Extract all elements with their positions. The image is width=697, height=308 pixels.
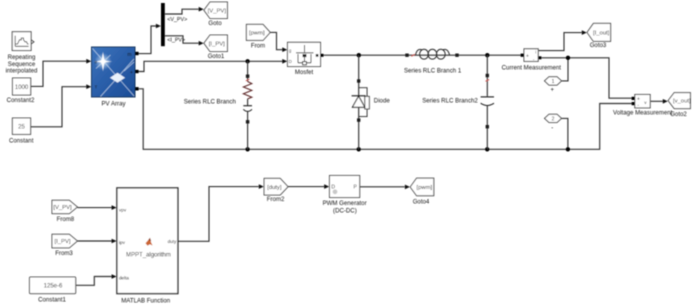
svg-text:Constant2: Constant2	[7, 97, 35, 104]
mosfet output port connector	[321, 54, 324, 57]
diode branch	[352, 55, 370, 149]
junction bottom bus at RLC branch	[245, 147, 249, 151]
svg-text:Series RLC Branch: Series RLC Branch	[184, 98, 236, 105]
svg-text:125e-6: 125e-6	[44, 284, 63, 290]
svg-text:From3: From3	[55, 250, 73, 257]
mosfet block	[288, 42, 324, 66]
terminal square top	[486, 74, 489, 77]
constant1 block 125e-6	[30, 277, 76, 294]
arrow into Goto2 v_out	[663, 99, 668, 104]
svg-text:PWM Generator: PWM Generator	[323, 200, 367, 207]
wire Mosfet output to Current Measurement (top bus)	[322, 54, 521, 56]
svg-text:[pwm]: [pwm]	[249, 31, 265, 37]
svg-text:[I_out]: [I_out]	[593, 31, 610, 37]
svg-text:interpolated: interpolated	[6, 68, 38, 75]
capacitor plates	[243, 105, 252, 107]
wire Voltage Measurement output to Goto2	[650, 100, 663, 102]
connection port 2	[545, 114, 562, 122]
svg-text:1000: 1000	[15, 85, 29, 91]
svg-text:[duty]: [duty]	[267, 185, 282, 191]
series RLC branch 2 capacitor vertical	[481, 55, 494, 149]
connection port 1	[545, 77, 562, 85]
wire Current Measurement out to Voltage Measurement plus	[541, 58, 631, 98]
svg-text:Voltage Measurement: Voltage Measurement	[613, 110, 673, 117]
svg-text:Goto4: Goto4	[413, 198, 430, 205]
terminal square top	[246, 75, 249, 78]
junction bottom bus at cap branch	[485, 147, 489, 151]
repeating sequence interpolated block	[12, 32, 34, 51]
from tag pwm	[246, 24, 270, 40]
constant2 block 1000	[13, 78, 31, 95]
arrow into Goto3 I_out	[582, 30, 587, 35]
wire MPPT duty to From2 duty tag	[178, 187, 259, 242]
wire PV minus down and bottom bus to Voltage Measurement minus	[139, 89, 632, 150]
arrow into MPPT ipv	[112, 239, 117, 244]
arrowheads group	[86, 7, 668, 279]
wire Current Measurement i output to Goto3	[538, 33, 582, 51]
svg-text:[pwm]: [pwm]	[416, 185, 432, 191]
svg-text:+: +	[551, 88, 555, 94]
PV Array block	[92, 47, 139, 97]
svg-text:Series RLC Branch2: Series RLC Branch2	[422, 98, 478, 105]
svg-text:i: i	[535, 50, 536, 55]
arrow into Goto V_PV	[199, 7, 204, 12]
wire From3 to MPPT ipv	[77, 240, 112, 242]
svg-text:Ir: Ir	[95, 59, 98, 64]
red tick	[486, 80, 490, 82]
wire junction to port 1	[562, 58, 569, 81]
series RLC branch vertical resistor capacitor	[243, 61, 252, 149]
goto2 tag v_out	[668, 93, 691, 109]
wire Constant 25 to PV T input	[31, 87, 87, 127]
input port connector	[521, 54, 524, 57]
junction bottom bus at diode	[357, 147, 361, 151]
svg-text:Constant: Constant	[9, 137, 34, 144]
svg-text:From2: From2	[267, 196, 285, 203]
wire port 2 to bottom bus	[562, 118, 568, 148]
capacitor plates	[481, 96, 494, 98]
wire bus selector out2 to Goto1 I_PV	[165, 36, 199, 43]
svg-text:duty: duty	[168, 239, 177, 244]
svg-text:2: 2	[552, 117, 555, 123]
input port connector plus	[632, 97, 635, 100]
svg-text:<I_PV>: <I_PV>	[167, 37, 185, 43]
MPPT algorithm MATLAB function block	[117, 188, 178, 294]
svg-text:[I_PV]: [I_PV]	[209, 41, 225, 47]
svg-text:Diode: Diode	[374, 97, 391, 104]
junction top bus at cap branch	[485, 53, 489, 57]
svg-text:Goto2: Goto2	[670, 111, 687, 118]
svg-text:vpv: vpv	[119, 207, 127, 212]
from8 tag V_PV	[52, 200, 77, 213]
svg-text:Current Measurement: Current Measurement	[502, 65, 562, 72]
svg-text:<V_PV>: <V_PV>	[167, 17, 187, 23]
arrow into MPPT delta	[112, 274, 117, 279]
svg-text:Mosfet: Mosfet	[295, 69, 314, 76]
PV port plus connector	[135, 70, 138, 73]
junction bottom bus at port 2	[566, 147, 570, 151]
svg-text:Goto3: Goto3	[590, 42, 607, 49]
wire PV m output to bus selector	[138, 26, 156, 54]
MATLAB membrane logo	[146, 238, 153, 246]
svg-text:Series RLC Branch 1: Series RLC Branch 1	[404, 68, 462, 75]
goto4 tag pwm	[410, 178, 434, 196]
svg-text:MPPT_algorithm: MPPT_algorithm	[126, 252, 171, 258]
PV port minus connector	[135, 87, 138, 90]
svg-text:From: From	[251, 42, 265, 49]
svg-text:1: 1	[552, 79, 555, 85]
arrow into Mosfet g	[282, 47, 287, 52]
output port connector	[538, 56, 541, 59]
series RLC branch 1 inductor	[405, 49, 458, 59]
svg-text:[V_PV]: [V_PV]	[53, 205, 72, 211]
svg-text:Goto1: Goto1	[208, 53, 225, 60]
inductor terminal right	[455, 54, 458, 57]
arrow into PV T	[86, 84, 91, 89]
svg-text:[I_PV]: [I_PV]	[54, 239, 70, 245]
svg-text:Goto: Goto	[208, 20, 222, 27]
diode terminal square top	[357, 79, 360, 82]
wire bus selector out1 to Goto V_PV	[165, 9, 199, 14]
diode terminal square bottom	[357, 118, 360, 121]
svg-text:Constant1: Constant1	[38, 297, 66, 304]
svg-text:PV Array: PV Array	[101, 101, 126, 108]
diode snubber loop	[359, 88, 367, 117]
junction dots	[245, 53, 570, 152]
voltage measurement block	[632, 95, 651, 109]
svg-text:-: -	[551, 126, 553, 132]
svg-text:delta: delta	[119, 276, 129, 281]
PV star highlight	[95, 53, 112, 70]
svg-text:T: T	[95, 85, 98, 90]
input port connector minus	[632, 102, 635, 105]
wire From pwm to Mosfet g input	[270, 32, 282, 49]
svg-text:+: +	[526, 53, 529, 59]
resistor zigzag R	[243, 82, 251, 99]
goto tag V_PV	[204, 2, 228, 19]
PWM generator block	[330, 176, 360, 198]
bus selector bar	[161, 3, 165, 46]
inductor coil	[416, 49, 422, 55]
junction top bus at RLC branch	[245, 59, 249, 63]
terminal square bottom	[246, 120, 249, 123]
goto3 tag I_out	[587, 23, 611, 41]
svg-text:ipv: ipv	[119, 240, 126, 245]
svg-text:25: 25	[18, 125, 25, 131]
from3 tag I_PV	[52, 234, 77, 248]
terminal square bottom	[486, 125, 489, 128]
wire From8 to MPPT vpv	[77, 207, 112, 209]
arrow into MPPT vpv	[112, 205, 117, 210]
arrow into Goto1 I_PV	[199, 41, 204, 46]
svg-text:m: m	[127, 52, 131, 58]
wire From2 to PWM Generator D	[288, 186, 325, 188]
red polarity tick	[246, 79, 250, 81]
inductor terminal left	[405, 54, 408, 57]
diode cathode bar	[352, 95, 366, 97]
svg-text:D: D	[289, 59, 292, 64]
red tick	[411, 54, 415, 56]
svg-text:+: +	[130, 70, 133, 76]
arrow into PWM Generator	[324, 184, 329, 189]
junction top bus at diode	[357, 53, 361, 57]
arrow into PV Ir	[86, 59, 91, 64]
goto1 tag I_PV	[204, 35, 228, 52]
label Repeating Sequence interpolated	[6, 54, 38, 75]
svg-text:[V_PV]: [V_PV]	[208, 8, 227, 14]
wire PV plus output to Mosfet D input	[139, 61, 283, 71]
from2 tag duty	[264, 178, 288, 195]
wire Constant2 1000 to PV Ir input	[31, 61, 87, 86]
arrow into Mosfet D	[282, 59, 287, 64]
arrow into Goto4 pwm	[405, 185, 410, 190]
current measurement block	[521, 49, 542, 63]
arrow into From2 duty	[259, 184, 264, 189]
arrow into bus selector	[156, 24, 161, 29]
junction current measurement out	[566, 56, 570, 60]
diode triangle	[352, 96, 364, 107]
svg-text:[v_out]: [v_out]	[673, 99, 691, 105]
svg-text:(DC-DC): (DC-DC)	[333, 207, 357, 214]
wire Constant1 to MPPT delta	[76, 277, 112, 286]
svg-text:MATLAB Function: MATLAB Function	[121, 298, 170, 305]
constant block 25	[12, 118, 30, 134]
svg-text:From8: From8	[57, 216, 75, 223]
PV port m connector	[135, 52, 138, 55]
wire PWM Generator P to Goto4	[360, 186, 405, 188]
